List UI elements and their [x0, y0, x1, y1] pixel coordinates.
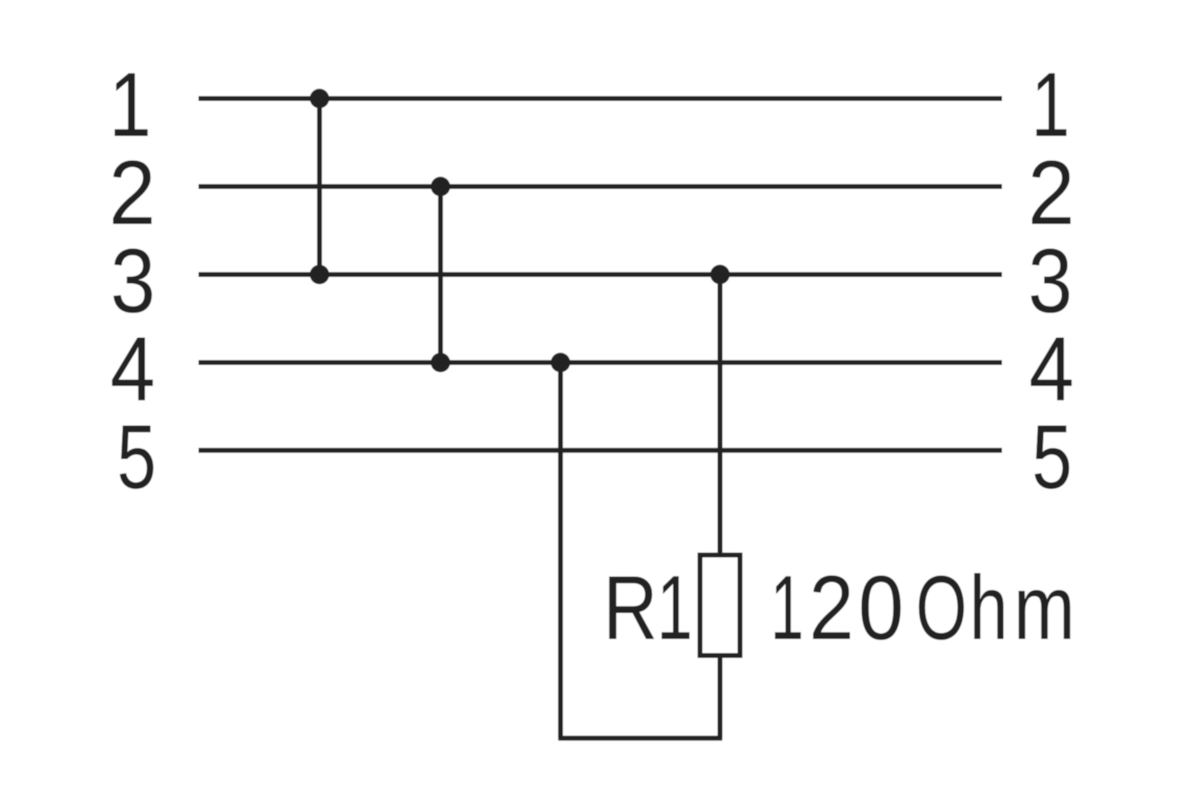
resistor R1 body	[700, 555, 740, 656]
junction node pin3/resistor drop	[710, 265, 729, 284]
svg-text:4: 4	[1029, 319, 1074, 420]
svg-text:2: 2	[1028, 141, 1075, 244]
wire resistor bottom lead	[718, 655, 723, 738]
svg-text:5: 5	[117, 407, 156, 508]
wire drop from pin4 to bottom	[558, 363, 563, 739]
wire pin4 horizontal	[199, 360, 1003, 365]
svg-text:4: 4	[110, 319, 155, 420]
svg-text:O: O	[916, 557, 967, 659]
junction node pin4/jumperB	[431, 353, 450, 372]
junction node pin1/jumperA	[310, 89, 329, 108]
svg-text:R: R	[603, 556, 658, 658]
svg-text:1: 1	[657, 557, 693, 658]
svg-text:2: 2	[809, 558, 854, 659]
svg-text:3: 3	[110, 231, 155, 332]
svg-text:0: 0	[858, 558, 904, 659]
wire pin3 horizontal	[199, 272, 1003, 277]
wire drop from pin3 to resistor top	[718, 275, 723, 556]
junction node pin4/drop	[551, 353, 570, 372]
svg-text:3: 3	[1028, 230, 1073, 332]
junction node pin2/jumperB	[431, 177, 450, 196]
junction node pin3/jumperA	[310, 265, 329, 284]
svg-text:h: h	[970, 558, 1008, 659]
svg-text:1: 1	[770, 558, 803, 660]
wire jumper pin2-pin4 vertical	[438, 187, 443, 363]
wire pin5 horizontal	[199, 448, 1003, 453]
svg-text:5: 5	[1032, 406, 1072, 508]
wire bottom horizontal	[558, 736, 722, 741]
svg-text:2: 2	[109, 141, 156, 244]
wire jumper pin1-pin3 vertical	[317, 99, 322, 275]
wire pin1 horizontal	[199, 96, 1003, 101]
wire pin2 horizontal	[199, 184, 1003, 189]
svg-text:m: m	[1014, 557, 1075, 659]
